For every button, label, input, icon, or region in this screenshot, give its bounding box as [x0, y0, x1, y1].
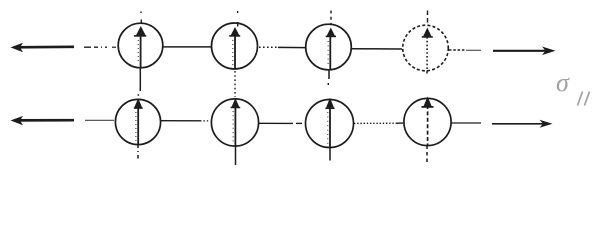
svg-text:σ: σ [556, 68, 570, 97]
